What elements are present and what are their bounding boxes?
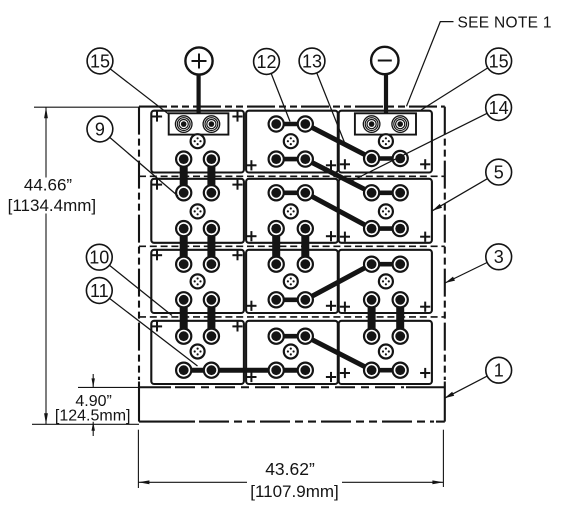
diagonal cable <box>305 124 371 158</box>
terminals top pair row2 col3 <box>364 185 379 200</box>
dimension line 44.66" <box>45 107 47 177</box>
leader line balloon 11 <box>110 298 198 366</box>
dimension arrow down <box>44 413 48 424</box>
dimension arrow tray bottom <box>92 422 94 436</box>
cell connector cable <box>276 334 305 339</box>
battery module B22 (row 2 col 2) <box>246 179 338 243</box>
balloon callout 15 <box>87 48 113 74</box>
polarity cross marks module B42 <box>246 376 256 378</box>
leader arrowhead balloon 3 <box>445 277 455 283</box>
shelf rail between row 3 and row 4 <box>139 316 445 318</box>
rack frame top edge <box>139 106 445 108</box>
cell connector cable <box>372 156 401 161</box>
battery module B43 (row 4 col 3) <box>339 321 432 384</box>
polarity cross marks module B33 <box>340 306 350 308</box>
inter-tier cable <box>272 229 280 265</box>
tray top rail <box>139 386 171 388</box>
vent cap row4 col3 <box>379 345 393 359</box>
battery module B33 (row 3 col 3) <box>339 250 432 313</box>
inter-tier cable <box>368 300 376 336</box>
polarity cross marks module B13 <box>340 163 350 165</box>
shelf rail between row 2 and row 3 <box>139 245 445 247</box>
terminals bottom pair row1 col2 <box>269 152 284 167</box>
svg-text:14: 14 <box>489 98 509 118</box>
terminals bottom pair row3 col2 <box>269 292 284 307</box>
battery module B23 (row 2 col 3) <box>339 179 432 243</box>
leader arrowhead balloon 1 <box>444 392 454 399</box>
inter-tier cable <box>180 300 188 336</box>
terminals top pair row2 col2 <box>269 185 284 200</box>
vent cap row2 col1 <box>191 204 205 218</box>
svg-text:11: 11 <box>90 281 109 301</box>
plate terminals row1 col3 <box>363 116 380 133</box>
terminals top pair row3 col3 <box>364 257 379 272</box>
battery module B13 (row 1 col 3) <box>339 111 432 173</box>
leader line balloon 10 <box>109 265 172 315</box>
vent cap row2 col2 <box>284 204 298 218</box>
terminals bottom pair row2 col1 <box>176 221 191 236</box>
polarity cross marks module B22 <box>246 235 256 237</box>
vent cap row1 col3 <box>379 134 393 148</box>
leader line balloon 1 <box>444 376 487 398</box>
svg-text:[124.5mm]: [124.5mm] <box>55 407 131 424</box>
vent cap row3 col1 <box>191 274 205 288</box>
cell connector cable <box>276 297 305 302</box>
polarity cross marks module B43 <box>340 372 350 374</box>
plate terminals row1 col1 <box>175 116 192 133</box>
long bottom row cable <box>184 368 306 373</box>
svg-text:43.62”: 43.62” <box>265 459 315 479</box>
svg-text:SEE NOTE 1: SEE NOTE 1 <box>458 14 552 31</box>
diagonal cable <box>305 336 371 370</box>
extension line top (44.66") <box>34 106 139 108</box>
svg-text:5: 5 <box>494 162 504 182</box>
polarity cross marks module B11 <box>152 116 162 118</box>
dimension arrow right <box>432 480 443 484</box>
polarity cross marks module B41 <box>152 325 162 327</box>
leader line balloon 13 <box>317 73 345 143</box>
terminals top pair row2 col1 <box>176 185 191 200</box>
inter-tier cable <box>396 300 404 336</box>
battery module B12 (row 1 col 2) <box>246 111 338 173</box>
terminals bottom pair row3 col3 <box>364 292 379 307</box>
shelf rail between row 1 and row 2 <box>139 175 445 177</box>
terminals bottom pair row4 col3 <box>364 363 379 378</box>
svg-text:15: 15 <box>90 51 110 71</box>
cell connector cable <box>372 191 401 196</box>
extension line bottom (44.66") <box>32 423 139 425</box>
balloon callout 13 <box>299 48 325 74</box>
leader line balloon 5 <box>432 179 487 211</box>
rack frame bottom edge <box>139 421 195 423</box>
leader line balloon 15 <box>421 68 488 110</box>
diagonal cable <box>305 264 371 300</box>
inter-tier cable <box>180 159 188 193</box>
terminals top pair row3 col2 <box>269 257 284 272</box>
cell connector cable <box>372 262 401 267</box>
terminals top pair row3 col1 <box>176 257 191 272</box>
balloon callout 11 <box>86 278 112 304</box>
negative terminal symbol - <box>371 47 398 74</box>
dimension arrow up <box>44 107 48 118</box>
leader line balloon 12 <box>271 74 290 122</box>
polarity cross marks module B31 <box>152 254 162 256</box>
cell connector cable <box>276 157 305 162</box>
polarity cross marks module B32 <box>246 305 256 307</box>
battery module B32 (row 3 col 2) <box>246 250 338 313</box>
svg-text:15: 15 <box>489 51 509 71</box>
battery module B21 (row 2 col 1) <box>151 179 244 243</box>
inter-tier cable <box>301 229 309 265</box>
vent cap row2 col3 <box>379 204 393 218</box>
terminals bottom pair row3 col1 <box>176 292 191 307</box>
terminals top pair row4 col3 <box>364 329 379 344</box>
leader line balloon 14 <box>352 113 488 181</box>
inter-tier cable <box>207 300 215 336</box>
vent cap row4 col1 <box>191 345 205 359</box>
inter-tier cable <box>180 229 188 265</box>
terminals bottom pair row1 col1 <box>176 152 191 167</box>
svg-text:9: 9 <box>95 119 105 139</box>
diagonal cable <box>305 193 371 229</box>
diagonal cable <box>305 159 371 193</box>
battery module B31 (row 3 col 1) <box>151 250 244 313</box>
rack frame right edge <box>444 107 446 380</box>
battery module B11 (row 1 col 1) <box>151 111 244 173</box>
balloon callout 5 <box>486 159 512 185</box>
balloon callout 14 <box>486 95 512 121</box>
terminals bottom pair row4 col2 <box>269 363 284 378</box>
polarity cross marks module B21 <box>152 184 162 186</box>
vent cap row3 col3 <box>379 274 393 288</box>
balloon callout 12 <box>254 49 280 75</box>
terminals top pair row4 col1 <box>176 329 191 344</box>
leader line SEE NOTE 1 <box>407 22 454 107</box>
svg-text:13: 13 <box>302 51 322 71</box>
negative terminal plate box (row1 col3) <box>355 113 416 134</box>
dimension line 43.62" <box>138 481 247 483</box>
vent cap row1 col2 <box>284 134 298 148</box>
svg-text:12: 12 <box>256 52 276 72</box>
inter-tier cable <box>207 229 215 265</box>
svg-text:[1134.4mm]: [1134.4mm] <box>8 196 97 215</box>
leader line balloon 9 <box>110 137 178 196</box>
svg-text:44.66”: 44.66” <box>24 176 73 195</box>
battery module B42 (row 4 col 2) <box>246 321 338 384</box>
leader arrowhead balloon 5 <box>432 204 442 211</box>
terminals bottom pair row1 col3 <box>364 151 379 166</box>
dimension arrow left <box>138 480 149 484</box>
polarity cross marks module B12 <box>246 164 256 166</box>
positive battery cable from + symbol down to plate <box>197 74 201 113</box>
terminals bottom pair row4 col1 <box>176 363 191 378</box>
balloon callout 1 <box>486 357 512 383</box>
vent cap row1 col1 <box>191 134 205 148</box>
leader line balloon 3 <box>445 263 487 284</box>
cell connector cable <box>372 226 401 231</box>
negative battery cable from - symbol down to plate <box>384 74 388 113</box>
positive terminal symbol + <box>185 47 212 74</box>
dimension arrow tray top <box>92 374 94 387</box>
terminals bottom pair row2 col3 <box>364 221 379 236</box>
extension line left (43.62") <box>137 430 139 488</box>
cell connector cable <box>372 368 401 373</box>
rack frame left edge <box>138 107 140 380</box>
balloon callout 9 <box>87 116 113 142</box>
balloon callout 3 <box>486 244 512 270</box>
svg-text:3: 3 <box>494 247 504 267</box>
terminals top pair row1 col2 <box>269 116 284 131</box>
svg-text:10: 10 <box>89 248 109 268</box>
vent cap row4 col2 <box>284 345 298 359</box>
cell connector cable <box>276 122 305 127</box>
positive terminal plate box (row1 col1) <box>169 113 229 134</box>
extension line tray top (4.90") <box>78 386 139 388</box>
svg-text:1: 1 <box>494 361 504 381</box>
leader line balloon 15 <box>110 69 168 114</box>
terminals top pair row4 col2 <box>269 329 284 344</box>
terminals bottom pair row2 col2 <box>269 221 284 236</box>
balloon callout 10 <box>86 244 112 270</box>
inter-tier cable <box>207 159 215 193</box>
battery module B41 (row 4 col 1) <box>151 321 244 384</box>
balloon callout 15 <box>486 48 512 74</box>
polarity cross marks module B23 <box>340 236 350 238</box>
svg-text:[1107.9mm]: [1107.9mm] <box>250 482 339 501</box>
extension line right (43.62") <box>442 430 444 487</box>
cell connector cable <box>276 191 305 196</box>
vent cap row3 col2 <box>284 274 298 288</box>
